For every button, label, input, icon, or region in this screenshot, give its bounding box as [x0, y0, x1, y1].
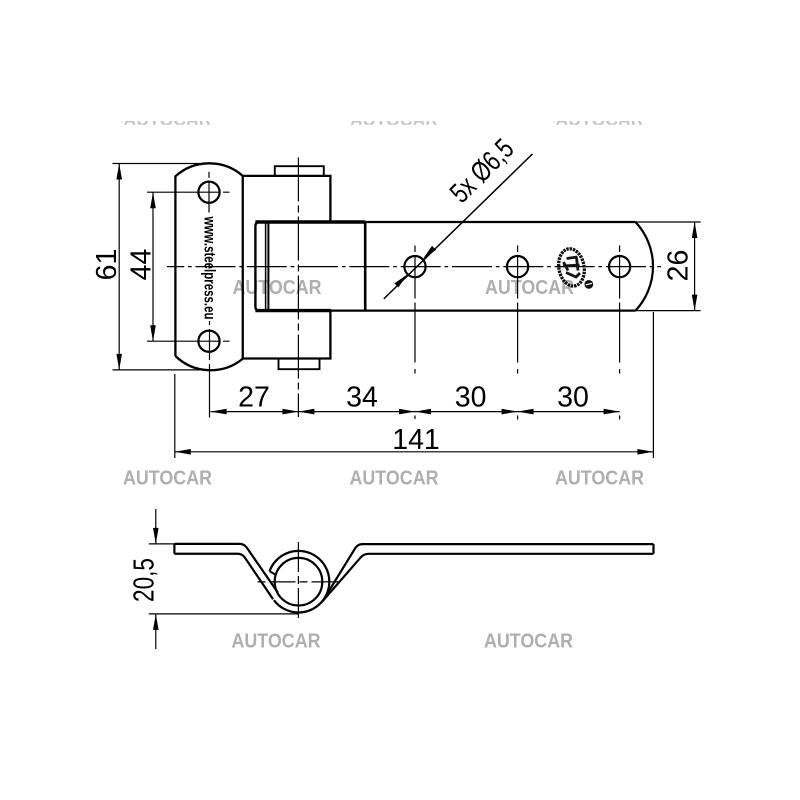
- watermark row4: [232, 630, 574, 653]
- profile vertical centerline: [297, 542, 299, 621]
- 26 dimension line: [694, 222, 696, 311]
- svg-text:AUTOCAR: AUTOCAR: [233, 276, 322, 299]
- pivot axis vertical centerline: [297, 158, 299, 418]
- strap hole1 vertical centerline / 34 ext: [414, 246, 416, 420]
- strap hole 2: [507, 256, 528, 277]
- svg-text:AUTOCAR: AUTOCAR: [484, 630, 573, 653]
- 20,5 ext top: [149, 543, 175, 545]
- main horizontal centerline: [167, 266, 661, 268]
- strap top edge (thick over leaf): [255, 220, 365, 223]
- 26 arrows: [692, 222, 698, 238]
- strap hole 1: [404, 256, 425, 277]
- 44 arrows: [150, 192, 156, 208]
- svg-text:61: 61: [91, 249, 123, 281]
- knuckle leaf rectangle: [243, 176, 331, 359]
- strap top extension for 26 dim: [636, 221, 701, 223]
- registered mark: [584, 280, 593, 289]
- profile left bar top + left diagonal upper: [174, 544, 277, 593]
- leader arrows at hole: [423, 246, 436, 259]
- 61 dim extension top: [113, 163, 210, 165]
- watermark row2: [233, 276, 575, 299]
- pin cap top: [275, 166, 324, 176]
- 20,5 arrows: [153, 528, 159, 630]
- plate hole bottom vertical centerline / 27 ext: [209, 321, 211, 418]
- strap hole2 vertical centerline / 30 ext: [517, 246, 519, 420]
- 30b arrows: [518, 409, 534, 415]
- logo stamp oval: [556, 247, 587, 288]
- svg-text:30: 30: [557, 382, 589, 414]
- 61 dim extension bottom: [113, 369, 210, 371]
- strap bottom extension for 26 dim: [636, 310, 701, 312]
- 30 arrows: [415, 409, 431, 415]
- 61 arrows: [116, 164, 122, 180]
- logo inner marks: [563, 257, 580, 277]
- 34 arrows: [298, 409, 314, 415]
- arrowheads: [116, 164, 697, 455]
- watermark row3: [123, 467, 644, 490]
- 141 ext right: [652, 312, 654, 458]
- strap wrap left cap: [255, 222, 268, 311]
- 27-34-30-30 dimension line: [211, 411, 620, 413]
- 27 arrows: [211, 409, 227, 415]
- 61 dimension line: [118, 164, 120, 370]
- 20,5 dim line top: [155, 509, 157, 544]
- plate hole top horizontal centerline / 44 ext: [147, 191, 230, 193]
- pin cap bottom: [279, 359, 320, 370]
- plate hole bottom horizontal centerline / 44 ext: [147, 340, 230, 342]
- 141 arrows: [175, 449, 191, 455]
- plate hole top: [198, 182, 219, 203]
- svg-text:141: 141: [392, 424, 440, 456]
- svg-text:AUTOCAR: AUTOCAR: [485, 276, 574, 299]
- svg-text:34: 34: [346, 382, 378, 414]
- 141 dimension line: [175, 451, 654, 453]
- profile left bar bottom + left diagonal lower: [174, 554, 273, 599]
- 20,5 ext bottom: [149, 613, 299, 615]
- outer curl arc: [270, 551, 330, 613]
- svg-text:20,5: 20,5: [129, 558, 161, 602]
- profile right bar end cap: [652, 544, 654, 554]
- plate hole bottom: [198, 331, 219, 352]
- 44 dimension line: [152, 192, 154, 341]
- pin circle: [275, 558, 323, 606]
- hinge plate (left leaf) outline: [175, 163, 242, 370]
- profile horizontal centerline: [258, 581, 339, 583]
- 141 ext left: [174, 374, 176, 458]
- 5x diameter leader line: [384, 154, 533, 299]
- svg-text:30: 30: [455, 382, 487, 414]
- svg-text:27: 27: [238, 382, 270, 414]
- right diagonal upper + right bar top: [325, 544, 654, 598]
- wrap inner line 2: [267, 223, 269, 311]
- svg-text:AUTOCAR: AUTOCAR: [123, 467, 212, 490]
- profile left bar end cap: [173, 544, 175, 554]
- svg-text:AUTOCAR: AUTOCAR: [350, 467, 439, 490]
- strap end face in curl: [270, 571, 276, 575]
- svg-text:26: 26: [663, 250, 695, 282]
- strap hole 3: [609, 256, 630, 277]
- watermark row1 (clipped slivers): [124, 108, 644, 131]
- svg-text:AUTOCAR: AUTOCAR: [232, 630, 321, 653]
- svg-text:www.steelpress.eu: www.steelpress.eu: [201, 216, 218, 320]
- strap division line: [364, 222, 367, 311]
- strap bottom edge: [331, 310, 636, 312]
- svg-text:44: 44: [126, 249, 158, 281]
- 20,5 dim line bottom: [155, 614, 157, 649]
- svg-text:AUTOCAR: AUTOCAR: [555, 467, 644, 490]
- strap rounded right end: [636, 222, 654, 311]
- right diagonal lower + right bar bottom: [322, 554, 654, 602]
- wrap inner line 1: [265, 223, 267, 310]
- strap bottom edge (thick over leaf): [255, 309, 331, 312]
- strap top edge: [365, 221, 635, 223]
- plate hole top vertical centerline: [208, 172, 210, 213]
- strap hole3 vertical centerline / 30 ext: [619, 246, 621, 421]
